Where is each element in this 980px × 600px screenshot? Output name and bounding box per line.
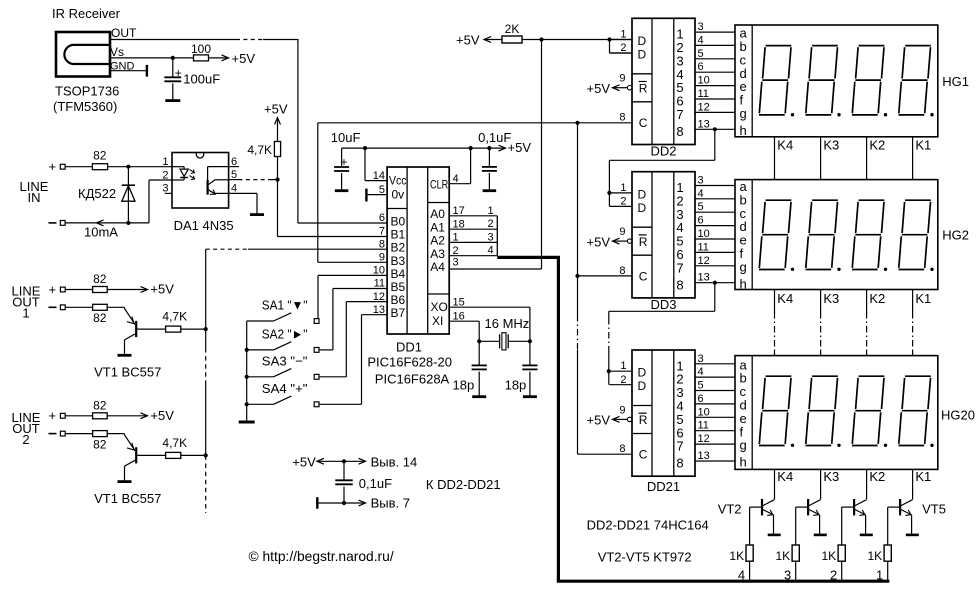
svg-text:1: 1 — [487, 205, 493, 217]
svg-text:DD2-DD21 74HC164: DD2-DD21 74HC164 — [587, 518, 709, 533]
svg-text:DD3: DD3 — [650, 297, 676, 312]
svg-text:12: 12 — [698, 101, 710, 113]
svg-text:+5V: +5V — [587, 81, 611, 96]
transistor VT1 BC557 — [124, 307, 126, 308]
svg-text:4: 4 — [231, 182, 237, 194]
wires K HG1 to HG2 — [774, 137, 776, 180]
wire down to B1 — [277, 180, 279, 237]
svg-text:+5V: +5V — [587, 413, 611, 428]
wire LINE IN + — [65, 166, 92, 168]
shift register DD2 body — [632, 18, 695, 144]
wire clock to DD21 C — [578, 453, 632, 455]
ground VT1 — [118, 354, 132, 357]
svg-text:5: 5 — [698, 380, 704, 392]
wire B0 stub — [298, 222, 387, 224]
svg-text:D: D — [638, 201, 647, 215]
wire A4 to 2K data line — [449, 268, 541, 270]
wires A0-A3 to bus — [449, 215, 497, 217]
microcontroller DD1 body — [387, 167, 449, 334]
svg-text:9: 9 — [619, 226, 625, 238]
capacitor C 100uF — [172, 58, 174, 77]
wire SA4 to B7 — [319, 403, 362, 405]
wire collector out — [136, 454, 165, 456]
svg-text:18p: 18p — [453, 378, 475, 393]
resistor 1K (VT5) — [884, 545, 891, 561]
ground 18p right — [523, 395, 537, 398]
svg-text:0,1uF: 0,1uF — [359, 476, 392, 491]
svg-text:11: 11 — [374, 278, 385, 290]
svg-text:12: 12 — [373, 291, 385, 303]
svg-text:+5V: +5V — [150, 282, 174, 297]
resistor 1K (VT3) — [792, 545, 799, 561]
svg-text:7: 7 — [379, 226, 385, 238]
wire IR OUT down to B0 — [297, 40, 299, 224]
svg-text:SA1 "▼": SA1 "▼" — [262, 298, 308, 313]
wires DD21 outputs to display — [695, 363, 735, 365]
svg-text:B5: B5 — [391, 280, 406, 294]
svg-text:SA4 "+": SA4 "+" — [262, 381, 308, 396]
svg-text:+: + — [49, 408, 57, 423]
phototransistor inside DA1 — [208, 166, 229, 168]
svg-text:DD21: DD21 — [647, 479, 680, 494]
wires DD2 outputs to display — [695, 31, 735, 33]
svg-text:8: 8 — [676, 456, 683, 471]
ground 10uF — [335, 189, 349, 192]
svg-text:6: 6 — [698, 61, 704, 73]
LED inside DA1 — [172, 166, 184, 168]
wire K4 to VT2 collector — [774, 469, 776, 499]
svg-text:K4: K4 — [777, 469, 793, 484]
svg-text:(TFM5360): (TFM5360) — [53, 99, 117, 114]
DD2 pin 1,2 stubs — [609, 39, 632, 41]
svg-text:g: g — [740, 259, 747, 274]
svg-text:4: 4 — [698, 366, 704, 378]
wires K HG2 to HG20 (dash-dot) — [774, 289, 776, 312]
display HG2 body — [735, 180, 938, 290]
wire clock bus vertical — [577, 123, 579, 315]
svg-text:12: 12 — [698, 255, 710, 267]
current arrow 10mA — [97, 220, 104, 226]
svg-text:2: 2 — [22, 432, 29, 447]
display HG20 body — [735, 356, 938, 470]
svg-text:1: 1 — [620, 182, 626, 194]
svg-text:TSOP1736: TSOP1736 — [55, 84, 119, 99]
resistor 1K (VT4) — [838, 545, 845, 561]
svg-text:1K: 1K — [729, 549, 744, 563]
ground 0.1uF — [483, 189, 497, 192]
resistor 1K (VT2) — [746, 545, 753, 561]
svg-text:82: 82 — [93, 148, 107, 162]
switch SA4 — [247, 403, 274, 405]
switch SA2 — [247, 349, 274, 351]
wire B2 vertical bus — [205, 249, 207, 348]
transistor VT4 KT972 — [853, 499, 855, 515]
svg-text:4,7K: 4,7K — [247, 143, 272, 157]
svg-text:© http://begstr.narod.ru/: © http://begstr.narod.ru/ — [249, 549, 394, 564]
ground VT4 emitter — [860, 534, 873, 537]
svg-text:OUT: OUT — [111, 26, 137, 40]
svg-text:+5V: +5V — [456, 33, 480, 48]
svg-text:B2: B2 — [391, 241, 406, 255]
DD2 R inversion bubble — [627, 86, 631, 90]
svg-text:4: 4 — [487, 245, 493, 257]
svg-text:12: 12 — [698, 433, 710, 445]
svg-text:2K: 2K — [505, 22, 520, 36]
transistor VT1 BC557 — [124, 434, 126, 435]
svg-text:XI: XI — [432, 314, 443, 328]
svg-text:2: 2 — [620, 42, 626, 54]
svg-text:HG1: HG1 — [942, 74, 969, 89]
wire clock B3 to DD2 C — [318, 122, 632, 124]
svg-text:3: 3 — [698, 353, 704, 365]
svg-text:8: 8 — [619, 265, 625, 277]
wire XI — [449, 320, 479, 322]
svg-text:K3: K3 — [823, 469, 839, 484]
svg-text:18p: 18p — [505, 378, 527, 393]
svg-text:1K: 1K — [822, 549, 837, 563]
HG1 digits — [759, 46, 791, 115]
wires DD3 outputs to display — [695, 185, 735, 187]
svg-text:SA2 "►": SA2 "►" — [262, 326, 308, 341]
ground 100uF — [165, 99, 180, 102]
svg-text:1: 1 — [162, 156, 168, 168]
resistor 100 — [194, 55, 209, 61]
wire GND with tick — [110, 70, 147, 72]
node to B2 bus — [204, 453, 208, 457]
wire K2 to VT4 collector — [866, 469, 868, 499]
wire B3 stub + clock riser — [318, 261, 387, 263]
HG20 digits — [759, 376, 791, 445]
svg-text:A2: A2 — [430, 234, 445, 248]
wire to Vyv.7 — [317, 502, 364, 504]
svg-text:10: 10 — [698, 406, 710, 418]
svg-text:+5V: +5V — [292, 454, 316, 469]
svg-text:100: 100 — [191, 42, 211, 56]
wire 1K to bus — [795, 561, 797, 580]
svg-text:4,7K: 4,7K — [162, 310, 187, 324]
svg-text:K1: K1 — [915, 138, 931, 153]
svg-text:13: 13 — [698, 118, 710, 130]
svg-text:82: 82 — [93, 398, 107, 412]
svg-text:C: C — [639, 269, 648, 283]
svg-text:D: D — [638, 187, 647, 201]
node rail/0.1uF — [487, 146, 491, 150]
svg-text:PIC16F628A: PIC16F628A — [375, 372, 450, 387]
svg-text:R: R — [639, 235, 648, 249]
shift register DD21 body — [632, 350, 695, 476]
resistor 82 (LINE IN) — [92, 164, 107, 170]
svg-text:1: 1 — [22, 306, 29, 321]
svg-text:g: g — [740, 438, 747, 453]
node cap bottom — [342, 501, 346, 505]
svg-text:82: 82 — [93, 437, 107, 451]
svg-text:10mA: 10mA — [84, 225, 118, 240]
terminal - — [49, 433, 57, 435]
svg-text:K3: K3 — [823, 138, 839, 153]
switch SA1 — [247, 320, 274, 322]
wire VT2 base — [750, 506, 762, 508]
svg-text:0,1uF: 0,1uF — [478, 130, 511, 145]
svg-text:B7: B7 — [391, 306, 406, 320]
svg-text:1: 1 — [620, 360, 626, 372]
svg-text:1K: 1K — [776, 549, 791, 563]
svg-text:1K: 1K — [868, 549, 883, 563]
wire to +5V — [107, 415, 146, 417]
capacitor 0.1uF (bottom) — [343, 461, 345, 480]
resistor 4.7K vertical — [274, 142, 280, 157]
wire VT3 base — [796, 506, 808, 508]
wire Vs — [110, 57, 194, 59]
svg-text:A4: A4 — [430, 260, 445, 274]
svg-text:10uF: 10uF — [331, 130, 361, 145]
svg-text:+5V: +5V — [587, 234, 611, 249]
svg-text:9: 9 — [619, 73, 625, 85]
svg-text:К DD2-DD21: К DD2-DD21 — [426, 477, 501, 492]
svg-text:C: C — [639, 116, 648, 130]
svg-text:6: 6 — [698, 393, 704, 405]
node data/A4 — [539, 37, 543, 41]
svg-text:B1: B1 — [391, 228, 406, 242]
svg-text:B3: B3 — [391, 254, 406, 268]
svg-text:2: 2 — [487, 218, 493, 230]
node clock DD3 — [575, 274, 579, 278]
wire to opto pin1 — [108, 166, 172, 168]
wire VT4 base — [842, 506, 854, 508]
ground tick Vyv.7 — [316, 497, 318, 509]
wire 2K to DD2 D inputs — [522, 39, 632, 41]
svg-text:A3: A3 — [430, 247, 445, 261]
wire 4.7K to junction — [277, 157, 279, 180]
wire 1K to bus — [887, 561, 889, 580]
ground VT1 — [118, 480, 132, 483]
svg-text:2: 2 — [620, 374, 626, 386]
wire CLR net — [449, 183, 470, 185]
svg-text:C: C — [639, 448, 648, 462]
LED light arrows — [190, 169, 194, 172]
node cap top — [342, 459, 346, 463]
SA switch common rail — [246, 321, 248, 421]
wire LINE IN - — [65, 222, 149, 224]
svg-text:Vcc: Vcc — [389, 174, 407, 188]
svg-text:IN: IN — [28, 190, 41, 205]
node XTAL right — [528, 339, 532, 343]
svg-text:13: 13 — [373, 304, 385, 316]
power rail +5V Vcc — [342, 147, 505, 149]
svg-text:A0: A0 — [430, 207, 445, 221]
svg-text:7: 7 — [676, 439, 683, 454]
resistor 2K — [502, 36, 522, 43]
svg-text:13: 13 — [698, 272, 710, 284]
svg-text:5: 5 — [698, 201, 704, 213]
node SA2 rail — [245, 348, 249, 352]
svg-text:SA3 "−": SA3 "−" — [262, 353, 308, 368]
svg-text:8: 8 — [676, 124, 683, 139]
svg-text:3: 3 — [487, 231, 493, 243]
transistor VT5 KT972 — [899, 499, 901, 515]
svg-text:D: D — [638, 366, 647, 380]
svg-text:2: 2 — [620, 196, 626, 208]
svg-text:82: 82 — [93, 311, 107, 325]
bus A0-A3 thick line — [497, 257, 889, 581]
svg-text:100uF: 100uF — [183, 72, 220, 87]
svg-text:Vs: Vs — [110, 45, 124, 59]
wire to +5V — [107, 289, 146, 291]
svg-text:CLR: CLR — [430, 178, 448, 192]
switch SA3 — [247, 376, 274, 378]
svg-text:K3: K3 — [823, 291, 839, 306]
svg-text:DD2: DD2 — [650, 143, 676, 158]
node diode anode — [126, 165, 130, 169]
node clock DD2 — [575, 121, 579, 125]
DD3 R inversion bubble — [627, 239, 631, 243]
terminal LINE IN - — [49, 222, 57, 224]
svg-text:D: D — [638, 379, 647, 393]
svg-text:K1: K1 — [915, 291, 931, 306]
svg-text:7: 7 — [676, 260, 683, 275]
ground VT2 emitter — [768, 534, 781, 537]
capacitor 18p left — [478, 341, 480, 365]
svg-text:1: 1 — [620, 29, 626, 41]
svg-text:K2: K2 — [869, 291, 885, 306]
svg-text:DD1: DD1 — [396, 340, 422, 355]
terminal - — [49, 306, 57, 308]
op­to-coupler DA1 4N35 body — [172, 153, 229, 209]
resistor 82 lower — [65, 433, 92, 435]
display HG1 body — [735, 25, 938, 137]
svg-text:K4: K4 — [777, 138, 793, 153]
svg-text:4: 4 — [698, 188, 704, 200]
svg-text:16 MHz: 16 MHz — [485, 316, 530, 331]
svg-text:VT2-VT5 KT972: VT2-VT5 KT972 — [598, 550, 692, 565]
svg-text:8: 8 — [619, 112, 625, 124]
wire B2 dashed horizontal — [206, 248, 248, 250]
ground opto — [250, 213, 264, 216]
ground VT5 emitter — [906, 534, 919, 537]
wire cascade DD2 h to DD3 D — [713, 127, 717, 131]
resistor 4.7K — [166, 452, 181, 458]
wire clock to DD3 C — [578, 275, 632, 277]
node XTAL left — [477, 339, 481, 343]
svg-text:11: 11 — [698, 241, 709, 253]
svg-text:IR Receiver: IR Receiver — [52, 6, 121, 21]
svg-text:10: 10 — [373, 265, 385, 277]
DD3 pin 1,2 stubs — [609, 192, 632, 194]
svg-text:+5V: +5V — [232, 51, 256, 66]
node SA3 rail — [245, 375, 249, 379]
svg-text:3: 3 — [698, 21, 704, 33]
svg-text:+: + — [175, 66, 182, 80]
svg-text:R: R — [639, 82, 648, 96]
node Vs/100uF junction — [171, 56, 175, 60]
svg-text:h: h — [740, 455, 747, 470]
resistor 4.7K — [166, 326, 181, 332]
svg-text:DA1 4N35: DA1 4N35 — [174, 218, 234, 233]
svg-text:D: D — [638, 48, 647, 62]
resistor 82 upper — [65, 415, 92, 417]
svg-text:КД522: КД522 — [78, 186, 116, 201]
wire 1K to bus — [749, 561, 751, 580]
svg-text:+5V: +5V — [150, 408, 174, 423]
svg-text:VT5: VT5 — [922, 502, 946, 517]
svg-text:HG20: HG20 — [941, 408, 975, 423]
wire up to opto pin2 — [148, 180, 150, 223]
svg-text:11: 11 — [698, 88, 709, 100]
svg-text:+: + — [49, 159, 57, 174]
DD21 R inversion bubble — [627, 417, 631, 421]
diode VD KD522 — [127, 167, 129, 223]
svg-text:9: 9 — [619, 404, 625, 416]
node diode cathode — [126, 221, 130, 225]
svg-text:10: 10 — [698, 228, 710, 240]
wire SA2 to B5 — [319, 349, 333, 351]
node rail/pin14 — [363, 146, 367, 150]
svg-text:Выв. 7: Выв. 7 — [371, 496, 410, 511]
wire SA3 to B6 — [319, 376, 346, 378]
capacitor 18p right — [529, 341, 531, 365]
wire K3 to VT3 collector — [820, 469, 822, 499]
IR receiver TSOP1736 body — [56, 32, 110, 77]
wire VT5 base — [888, 506, 900, 508]
svg-text:K1: K1 — [915, 469, 931, 484]
ground SA rail — [239, 421, 255, 424]
svg-text:0v: 0v — [392, 188, 405, 202]
DD21 pin 1,2 stubs — [609, 370, 632, 372]
svg-text:6: 6 — [698, 215, 704, 227]
transistor VT2 KT972 — [761, 499, 763, 515]
wire pin14 — [364, 148, 366, 181]
wire IR OUT — [110, 39, 236, 41]
svg-text:+: + — [340, 155, 347, 169]
node rail/CLR — [469, 146, 473, 150]
resistor 82 lower — [65, 306, 92, 308]
svg-text:B6: B6 — [391, 293, 406, 307]
svg-text:B4: B4 — [391, 267, 406, 281]
svg-text:K2: K2 — [869, 469, 885, 484]
svg-text:11: 11 — [698, 420, 709, 432]
svg-text:82: 82 — [93, 272, 107, 286]
svg-text:8: 8 — [676, 277, 683, 292]
ground 18p left — [472, 395, 486, 398]
svg-text:2: 2 — [162, 169, 168, 181]
transistor VT3 KT972 — [807, 499, 809, 515]
wire collector out — [136, 328, 165, 330]
svg-text:VT1 BC557: VT1 BC557 — [94, 365, 161, 380]
svg-text:VT1 BC557: VT1 BC557 — [94, 491, 161, 506]
svg-text:5: 5 — [698, 48, 704, 60]
node DD2 D jog — [607, 37, 611, 41]
svg-text:h: h — [740, 123, 747, 138]
svg-text:8: 8 — [379, 238, 385, 250]
node opto output — [275, 178, 279, 182]
svg-text:h: h — [740, 276, 747, 291]
svg-text:PIC16F628-20: PIC16F628-20 — [367, 355, 452, 370]
svg-text:+5V: +5V — [264, 102, 288, 117]
svg-text:VT2: VT2 — [718, 502, 742, 517]
svg-text:3: 3 — [698, 175, 704, 187]
svg-text:4: 4 — [698, 34, 704, 46]
svg-text:7: 7 — [676, 107, 683, 122]
ground VT3 emitter — [814, 534, 827, 537]
wire cascade DD3 h to DD21 D — [713, 281, 717, 285]
svg-text:4,7K: 4,7K — [162, 436, 187, 450]
svg-text:+: + — [49, 282, 57, 297]
svg-text:K4: K4 — [777, 291, 793, 306]
svg-text:R: R — [639, 413, 648, 427]
wire to +5V arrow — [209, 57, 228, 59]
node to B2 bus — [204, 327, 208, 331]
svg-text:13: 13 — [698, 450, 710, 462]
wire 1K to bus — [841, 561, 843, 580]
